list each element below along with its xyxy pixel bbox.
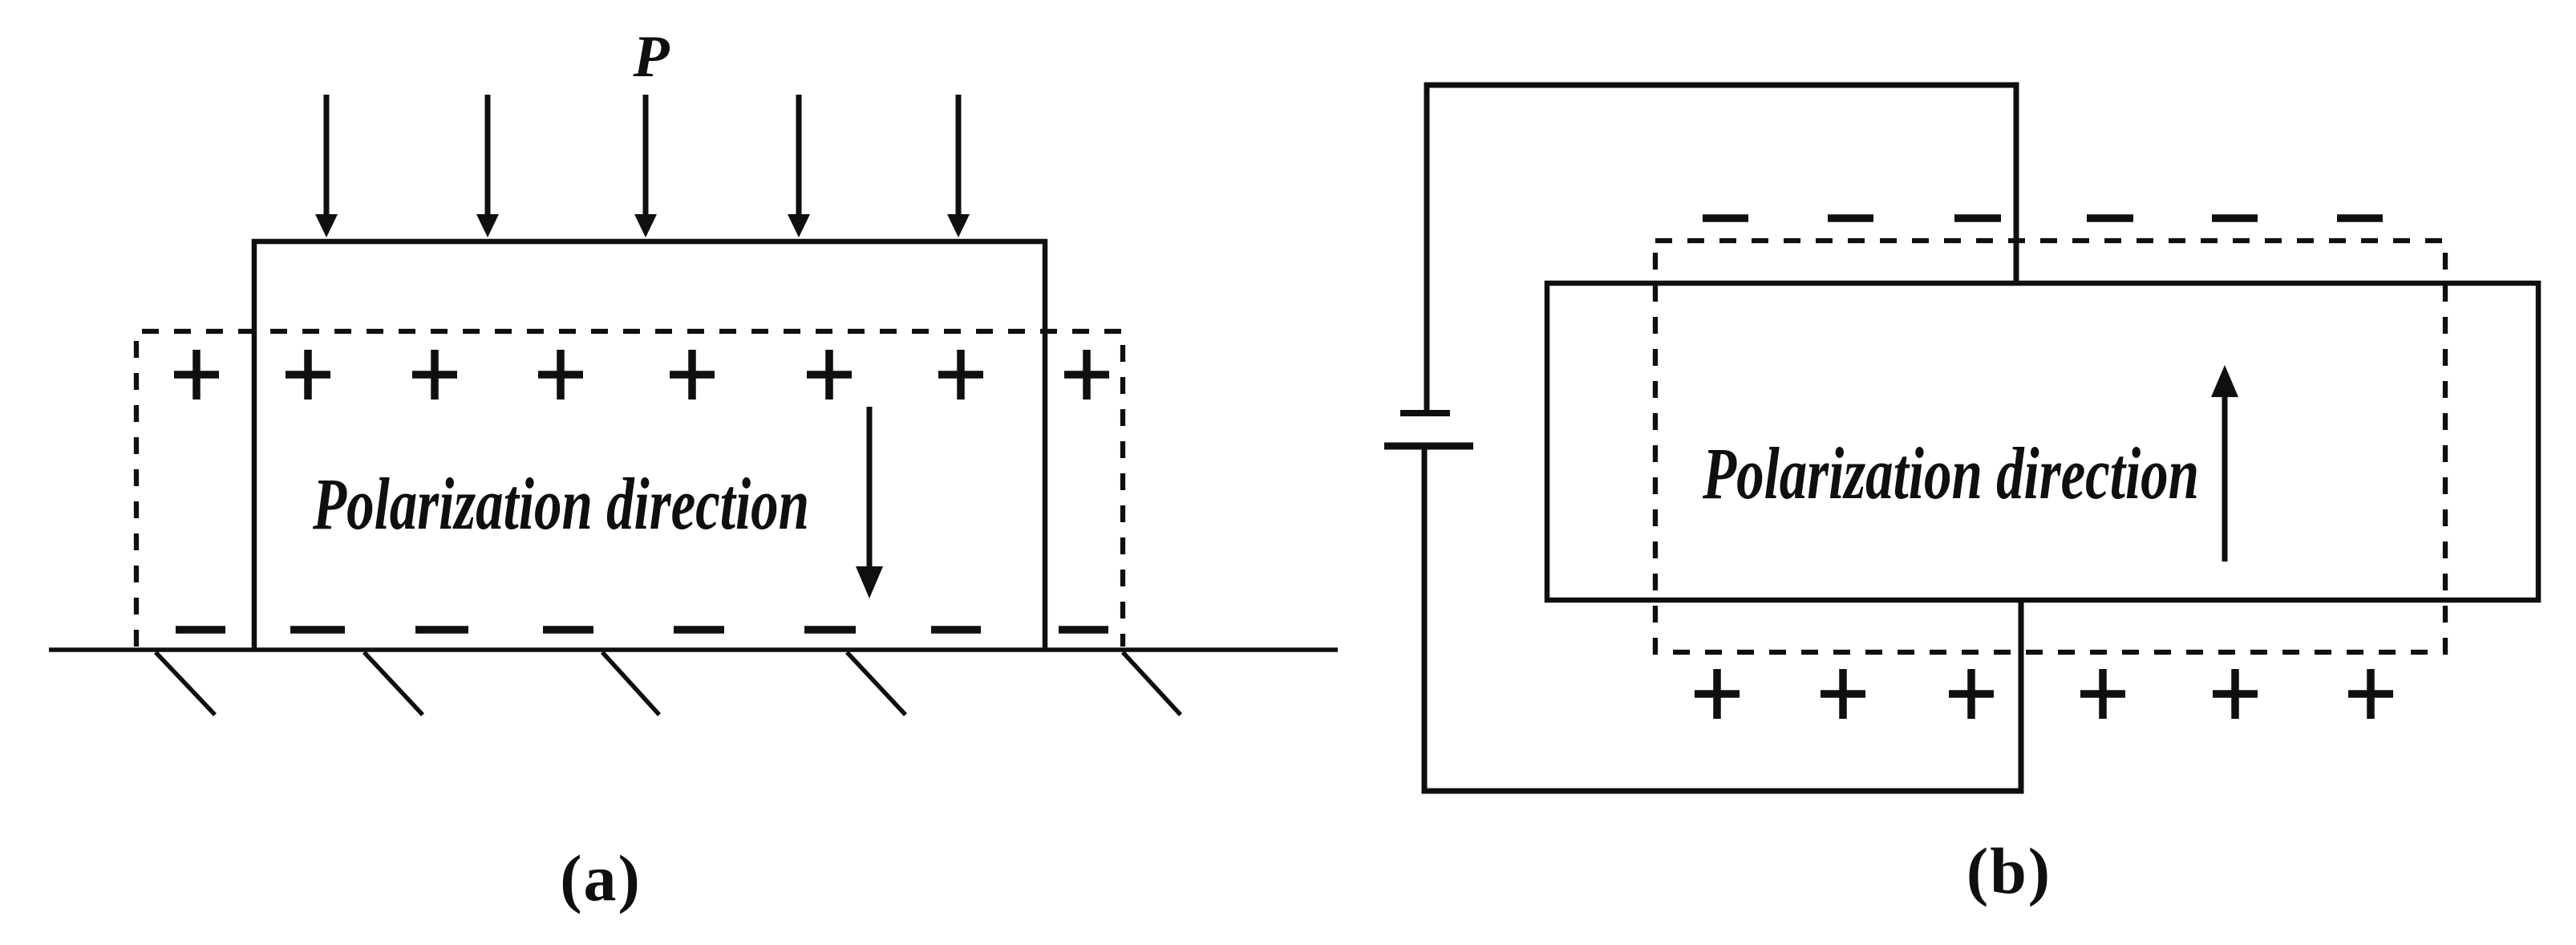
positive charge 3 (a) bbox=[412, 350, 457, 399]
ground hatch 1 bbox=[156, 652, 215, 715]
negative charge 8 (a) bbox=[1059, 626, 1108, 634]
dashed charge boundary (a) bbox=[136, 331, 1123, 647]
svg-text:(a): (a) bbox=[560, 842, 642, 915]
positive charge 6 (b) bbox=[2348, 669, 2393, 719]
svg-text:Polarization direction: Polarization direction bbox=[1702, 433, 2199, 515]
polarization arrow (a, downward) bbox=[856, 407, 883, 598]
wire: battery bottom to lower electrode bbox=[1424, 449, 2021, 791]
positive charge 1 (a) bbox=[174, 350, 219, 399]
negative charge 6 (b) bbox=[2337, 214, 2383, 222]
ground hatch 2 bbox=[364, 652, 423, 715]
force arrow 5 bbox=[947, 95, 970, 237]
dashed charge boundary (b) bbox=[1655, 241, 2445, 652]
svg-text:Polarization direction: Polarization direction bbox=[312, 464, 809, 546]
negative charge 6 (a) bbox=[804, 626, 856, 634]
ground line (a) bbox=[49, 647, 1338, 652]
svg-text:P: P bbox=[632, 24, 670, 90]
battery B1 top plate (short) bbox=[1400, 410, 1450, 416]
positive charge 5 (a) bbox=[670, 350, 715, 399]
negative charge 1 (a) bbox=[176, 626, 225, 634]
force arrow 1 bbox=[315, 95, 338, 237]
ground hatch 3 bbox=[602, 652, 659, 715]
positive charge 7 (a) bbox=[938, 350, 983, 399]
battery B1 bottom plate (long) bbox=[1384, 443, 1473, 450]
positive charge 5 (b) bbox=[2213, 669, 2258, 719]
positive charge 3 (b) bbox=[1949, 669, 1994, 719]
negative charge 3 (a) bbox=[415, 626, 468, 634]
piezo element body (b) bbox=[1547, 283, 2538, 600]
negative charge 2 (b) bbox=[1828, 214, 1873, 222]
positive charge 2 (b) bbox=[1821, 669, 1865, 719]
positive charge 4 (a) bbox=[538, 350, 583, 399]
negative charge 4 (a) bbox=[543, 626, 593, 634]
positive charge 6 (a) bbox=[807, 350, 852, 399]
negative charge 7 (a) bbox=[931, 626, 981, 634]
negative charge 3 (b) bbox=[1954, 214, 2001, 222]
positive charge 8 (a) bbox=[1064, 350, 1109, 399]
ground hatch 5 bbox=[1123, 652, 1181, 715]
force arrow 3 bbox=[634, 95, 657, 237]
positive charge 1 (b) bbox=[1695, 669, 1740, 719]
force arrow 4 bbox=[788, 95, 810, 237]
force arrow 2 bbox=[476, 95, 499, 237]
svg-text:(b): (b) bbox=[1966, 834, 2051, 907]
piezo element body (a) bbox=[254, 241, 1045, 650]
negative charge 5 (a) bbox=[674, 626, 724, 634]
ground hatch 4 bbox=[847, 652, 905, 715]
negative charge 1 (b) bbox=[1703, 214, 1748, 222]
polarization arrow (b, upward) bbox=[2211, 365, 2238, 562]
negative charge 5 (b) bbox=[2212, 214, 2258, 222]
wire: battery top to upper electrode bbox=[1427, 85, 2016, 412]
positive charge 4 (b) bbox=[2080, 669, 2125, 719]
positive charge 2 (a) bbox=[286, 350, 330, 399]
negative charge 4 (b) bbox=[2087, 214, 2133, 222]
negative charge 2 (a) bbox=[290, 626, 345, 634]
